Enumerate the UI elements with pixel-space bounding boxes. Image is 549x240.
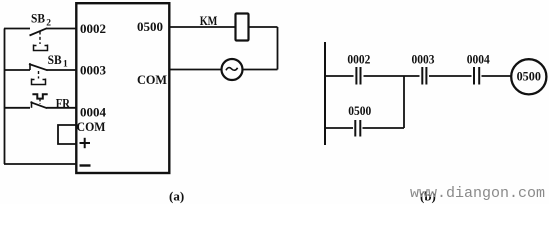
- svg-text:0004: 0004: [80, 105, 107, 120]
- terminal label COM (input side): [77, 119, 106, 134]
- wire: right side vertical of output loop: [277, 27, 279, 70]
- terminal label 0004: [80, 105, 107, 120]
- wire: main rung segments: [325, 75, 511, 77]
- svg-text:0500: 0500: [348, 103, 371, 118]
- coil KM: [236, 14, 249, 41]
- svg-text:COM: COM: [137, 72, 167, 87]
- svg-text:COM: COM: [77, 119, 106, 134]
- svg-text:0002: 0002: [80, 21, 106, 36]
- svg-text:0500: 0500: [517, 70, 541, 84]
- terminal label COM (output side): [137, 72, 167, 87]
- wire: common return row to minus terminal: [4, 163, 76, 165]
- label SB2: [31, 11, 51, 29]
- PLC box: [76, 3, 169, 173]
- svg-text:0004: 0004: [467, 52, 490, 67]
- svg-text:SB: SB: [31, 11, 45, 26]
- pushbutton SB2 (normally open): [30, 28, 48, 50]
- terminal label 0500 (output): [137, 19, 163, 34]
- output coil 0500: [511, 59, 546, 94]
- wire: branch rung segments: [325, 127, 404, 129]
- label KM: [200, 13, 218, 28]
- terminal label 0002: [80, 21, 106, 36]
- contact 0004: [474, 67, 479, 85]
- wire: input row 0002: [4, 28, 76, 30]
- svg-text:1: 1: [63, 60, 68, 70]
- watermark www.diangon.com: [410, 185, 545, 202]
- svg-text:0002: 0002: [347, 52, 370, 67]
- thermal relay contact FR (normally closed): [31, 94, 48, 108]
- label 0003 (ladder): [412, 52, 435, 67]
- wire: branch junction vertical: [403, 76, 405, 128]
- label 0004 (ladder): [467, 52, 490, 67]
- terminal label 0003: [80, 62, 107, 77]
- terminal label plus: [80, 138, 91, 148]
- wire: input row 0004: [4, 107, 76, 109]
- pushbutton SB1 (normally closed): [29, 63, 48, 84]
- terminal label minus: [80, 164, 91, 166]
- contact 0500 (seal-in): [355, 120, 360, 137]
- AC source: [222, 59, 243, 80]
- svg-text:0500: 0500: [137, 19, 163, 34]
- wire: output row 0500 to coil: [170, 26, 278, 28]
- label (a): [169, 189, 184, 204]
- jumper wire COM to plus: [58, 125, 76, 144]
- wire: left bus bar of ladder (b): [324, 42, 326, 145]
- svg-text:(a): (a): [169, 189, 184, 204]
- wire: left common rail of diagram (a): [4, 29, 6, 165]
- wire: input row 0003: [4, 69, 76, 71]
- contact 0002: [356, 67, 360, 85]
- svg-text:KM: KM: [200, 13, 218, 28]
- label 0002 (ladder): [347, 52, 370, 67]
- svg-text:2: 2: [46, 18, 51, 28]
- label 0500 (seal-in contact): [348, 103, 371, 118]
- label SB1: [48, 52, 68, 70]
- label FR: [56, 96, 71, 111]
- svg-text:SB: SB: [48, 52, 62, 67]
- label (b): [420, 189, 436, 204]
- contact 0003: [422, 67, 426, 85]
- svg-text:www.diangon.com: www.diangon.com: [410, 185, 545, 202]
- label 0500 (inside coil): [517, 70, 541, 84]
- svg-text:FR: FR: [56, 96, 71, 111]
- svg-text:0003: 0003: [80, 62, 107, 77]
- wire: output COM row to source: [170, 69, 278, 71]
- svg-text:0003: 0003: [412, 52, 435, 67]
